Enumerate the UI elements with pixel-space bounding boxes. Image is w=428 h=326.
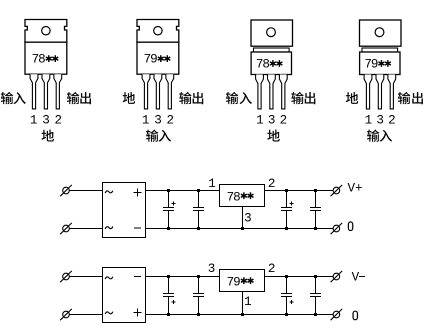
net label 0 (negative circuit) <box>353 311 357 320</box>
wire AC input bottom <box>70 228 103 230</box>
pin 1 leg <box>256 75 264 109</box>
package body <box>25 42 67 74</box>
label 输入 (input) below 79** pins <box>146 129 158 141</box>
svg-text:2: 2 <box>167 114 175 128</box>
svg-text:V: V <box>352 270 360 284</box>
net label V− <box>352 270 366 284</box>
regulator text 78** <box>227 190 241 204</box>
label 输出 (output) right of pkg3 <box>291 92 303 104</box>
svg-text:1: 1 <box>365 114 373 128</box>
pin number labels 1 3 2 <box>365 114 396 128</box>
asterisks of 79 <box>378 60 391 67</box>
junction C6 top <box>197 275 200 278</box>
pin 3 leg <box>376 75 384 109</box>
label 地 (ground) left of 79** pin 1 <box>123 92 135 104</box>
svg-text:9: 9 <box>371 58 379 72</box>
svg-text:9: 9 <box>150 53 158 67</box>
text label 78 <box>256 58 270 72</box>
bridge + output symbol <box>134 188 142 196</box>
output terminal 0 <box>331 309 343 320</box>
label 入 <box>380 130 392 142</box>
svg-text:1: 1 <box>244 295 252 309</box>
junction C2 top <box>197 189 200 192</box>
svg-text:8: 8 <box>233 190 241 204</box>
mounting hole <box>154 27 162 35</box>
bridge + output symbol <box>134 309 142 317</box>
pin 1 leg <box>142 74 150 109</box>
pin 2 leg <box>54 74 62 109</box>
electrolytic capacitor C3 (polarized) <box>281 191 294 229</box>
junction C2 bottom <box>197 227 200 230</box>
svg-text:1: 1 <box>256 114 264 128</box>
label 入 <box>13 92 25 104</box>
regulator 79 isolated-package heatsink tab <box>360 20 402 46</box>
pin 2 leg <box>388 75 396 109</box>
pin label 2 (regulator right pin) <box>268 262 276 276</box>
junction C5 top <box>167 275 170 278</box>
junction C5 bottom <box>167 313 170 316</box>
label 输入 (input) below pkg4 <box>367 129 379 141</box>
svg-text:3: 3 <box>376 114 384 128</box>
text label 79 <box>364 58 378 72</box>
junction C1 bottom <box>167 227 170 230</box>
wire AC input bottom <box>70 314 103 316</box>
svg-text:3: 3 <box>244 212 252 226</box>
wire AC input top <box>70 276 103 278</box>
voltage regulator 78** box <box>220 185 265 207</box>
pin 1 leg <box>364 75 372 109</box>
label 地 (ground) below pkg3 <box>267 130 279 142</box>
junction C6 bottom <box>197 313 200 316</box>
regulator asterisks <box>241 192 254 199</box>
label 输出 (output) right of 79** pin 2 <box>179 92 191 104</box>
svg-text:1: 1 <box>142 114 150 128</box>
capacitor C2 <box>193 191 204 229</box>
svg-text:2: 2 <box>268 262 276 276</box>
capacitor C6 <box>193 277 204 315</box>
junction regulator pin on 0V rail <box>241 313 244 316</box>
label 输出 (output) right of 78** pin 2 <box>67 92 79 104</box>
pin 2 leg <box>166 74 174 109</box>
AC input terminal top (positive circuit) <box>60 185 72 196</box>
pin 3 leg <box>268 75 276 109</box>
junction C4 top <box>314 189 317 192</box>
output terminal 0 <box>331 223 343 234</box>
bridge ~ AC symbol top <box>105 191 113 193</box>
bridge − output symbol <box>134 227 141 229</box>
bridge rectifier B2 <box>103 268 146 323</box>
label 入 <box>159 130 171 142</box>
asterisks of 78 <box>270 60 283 67</box>
mounting hole <box>267 28 276 37</box>
junction regulator pin on 0V rail <box>241 227 244 230</box>
text label 79 <box>144 53 158 67</box>
regulator text 79** <box>227 275 241 289</box>
wire regulator common pin to 0V rail <box>242 292 244 315</box>
bridge − output symbol <box>134 276 141 278</box>
junction C3 top <box>285 189 288 192</box>
svg-text:8: 8 <box>38 53 46 67</box>
pin label 2 (regulator right pin) <box>268 177 276 191</box>
package body <box>360 52 400 75</box>
junction C3 bottom <box>285 227 288 230</box>
bridge ~ AC symbol top <box>105 277 113 279</box>
regulator 79 TO-220 package tab with notches <box>137 20 179 43</box>
junction C1 top <box>167 189 170 192</box>
package body <box>137 42 179 74</box>
label 地 (ground) below 78** pins <box>42 130 54 142</box>
voltage regulator 79** box <box>220 270 265 292</box>
pin 3 leg <box>154 74 162 109</box>
electrolytic capacitor C1 (polarized) <box>163 191 176 229</box>
pin label 3 (regulator left pin) <box>208 262 216 276</box>
capacitor C8 <box>310 277 321 315</box>
bridge ~ AC symbol bottom <box>105 312 113 314</box>
pin label 3 (regulator bottom pin) <box>244 212 252 226</box>
collar <box>254 48 290 52</box>
pin label 1 (regulator left pin) <box>208 177 216 191</box>
pin 3 leg <box>42 74 50 109</box>
pin 1 leg <box>30 74 38 109</box>
svg-text:3: 3 <box>42 114 50 128</box>
svg-text:3: 3 <box>208 262 216 276</box>
asterisks of 78 <box>46 55 59 62</box>
net label 0 (positive circuit) <box>348 222 352 231</box>
svg-text:9: 9 <box>233 275 241 289</box>
label 输出 (output) right of pkg4 <box>398 92 410 104</box>
asterisks of 79 <box>158 55 171 62</box>
pin number labels 1 3 2 <box>142 114 174 128</box>
bridge ~ AC symbol bottom <box>105 227 113 229</box>
pin 2 leg <box>279 75 287 109</box>
wire DC rail top: bridge to regulator input <box>146 276 220 278</box>
wire regulator output to terminal <box>265 276 334 278</box>
junction C7 bottom <box>285 313 288 316</box>
label 出 <box>193 92 204 104</box>
bridge rectifier B1 <box>103 183 146 238</box>
label 入 <box>239 92 251 104</box>
regulator asterisks <box>241 277 254 284</box>
wire DC rail top: bridge to regulator input <box>146 190 220 192</box>
svg-text:8: 8 <box>262 58 270 72</box>
svg-text:3: 3 <box>154 114 162 128</box>
AC input terminal top (negative circuit) <box>60 271 72 282</box>
electrolytic capacitor C5 (polarized) <box>163 277 176 315</box>
label 输入 (input) left of 78** pin 1 <box>1 92 13 104</box>
svg-text:2: 2 <box>268 177 276 191</box>
text label 78 <box>32 53 46 67</box>
wire 0V rail bottom <box>146 228 334 230</box>
capacitor C4 <box>310 191 321 229</box>
wire AC input top <box>70 190 103 192</box>
junction C7 top <box>285 275 288 278</box>
mounting hole <box>375 28 384 37</box>
label 出 <box>305 92 316 104</box>
electrolytic capacitor C7 (polarized) <box>281 277 294 315</box>
label 输入 (input) left of pkg3 <box>226 92 238 104</box>
pin label 1 (regulator bottom pin) <box>244 295 252 309</box>
collar <box>362 48 398 52</box>
label 地 (ground) left of pkg4 <box>346 92 358 104</box>
svg-text:2: 2 <box>55 114 63 128</box>
wire regulator output to terminal <box>265 190 334 192</box>
regulator 78 isolated-package heatsink tab <box>251 20 293 46</box>
wire 0V rail bottom <box>146 314 334 316</box>
svg-text:1: 1 <box>208 177 216 191</box>
pin number labels 1 3 2 <box>30 114 62 128</box>
junction C8 bottom <box>314 313 317 316</box>
package body <box>251 52 291 75</box>
svg-text:V+: V+ <box>348 182 363 196</box>
pin number labels 1 3 2 <box>256 114 287 128</box>
svg-text:3: 3 <box>268 114 276 128</box>
junction C8 top <box>314 275 317 278</box>
output terminal V+ <box>331 185 343 196</box>
wire regulator common pin to 0V rail <box>242 207 244 229</box>
net label V+ <box>348 182 363 196</box>
mounting hole <box>42 27 50 35</box>
svg-text:1: 1 <box>30 114 38 128</box>
regulator 78 TO-220 package tab with notches <box>25 20 67 43</box>
AC input terminal bottom (negative circuit) <box>60 309 72 320</box>
svg-text:2: 2 <box>388 114 396 128</box>
AC input terminal bottom (positive circuit) <box>60 223 72 234</box>
junction C4 bottom <box>314 227 317 230</box>
svg-text:2: 2 <box>280 114 288 128</box>
output terminal V- <box>331 271 343 282</box>
label 出 <box>412 92 423 104</box>
label 出 <box>80 92 91 104</box>
